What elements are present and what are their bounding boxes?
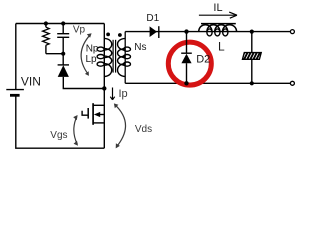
svg-text:D2: D2 (196, 54, 210, 66)
svg-text:Ns: Ns (134, 42, 146, 53)
svg-text:IL: IL (213, 2, 222, 14)
svg-text:Vds: Vds (135, 124, 152, 135)
svg-text:Lp: Lp (86, 54, 98, 65)
svg-text:Vp: Vp (73, 25, 86, 36)
svg-text:L: L (218, 39, 225, 53)
svg-text:VIN: VIN (21, 74, 41, 88)
svg-text:Ip: Ip (119, 88, 128, 100)
svg-text:Vgs: Vgs (50, 130, 67, 141)
svg-text:Np: Np (86, 43, 99, 54)
svg-text:D1: D1 (146, 13, 159, 24)
